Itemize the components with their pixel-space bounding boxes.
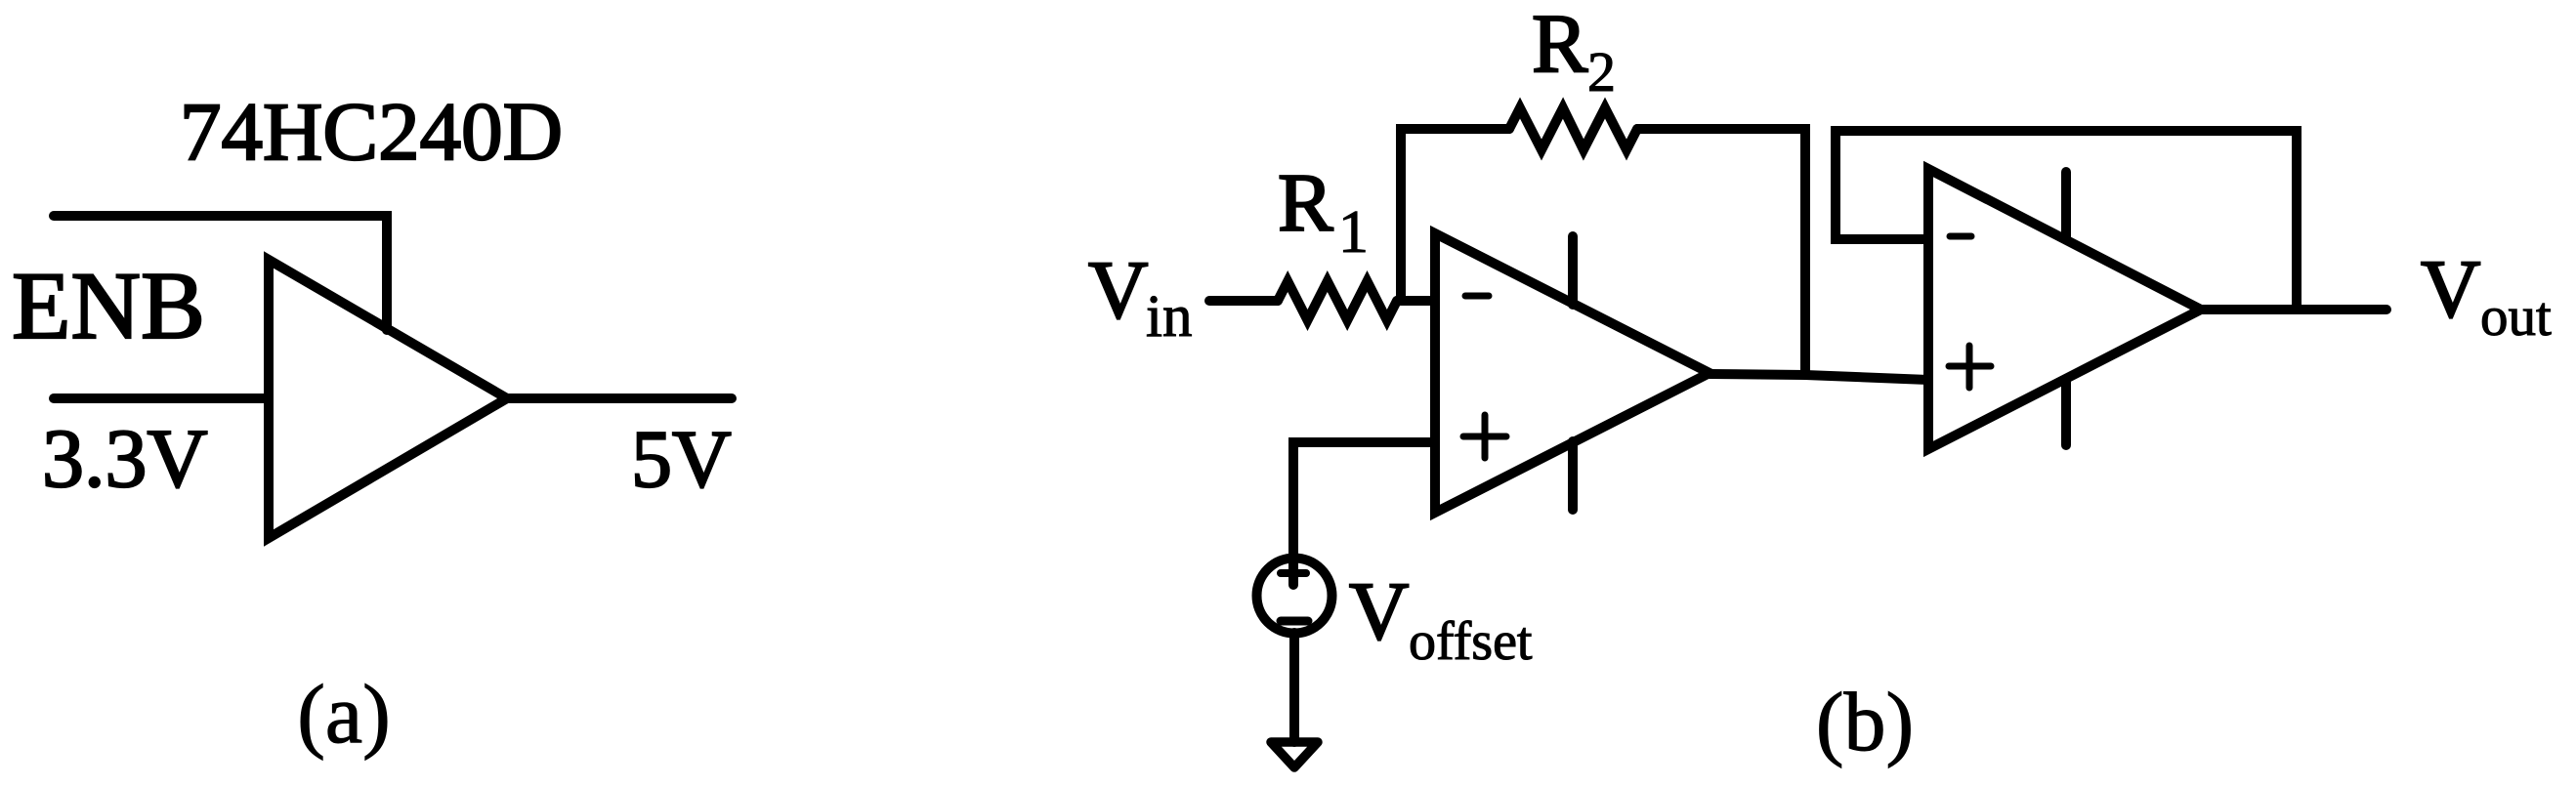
wire Vout output: [2201, 305, 2386, 314]
op-amp U3 non-inverting pin mark: [1949, 346, 1991, 388]
resistor R1: [1278, 281, 1397, 320]
resistor R2 label: [1532, 0, 1616, 104]
node Vin label: [1088, 244, 1192, 350]
wire R2 right branch: [1637, 129, 1805, 375]
svg-text:1: 1: [1338, 199, 1369, 266]
op-amp U3 triangle: [1928, 169, 2201, 449]
ground: [1271, 742, 1318, 767]
buffer U1 triangle: [269, 260, 507, 538]
wire R2 left branch: [1401, 129, 1509, 301]
wire op-amp U3 feedback loop: [1836, 131, 2297, 310]
wire Voffset to ground: [1289, 633, 1299, 742]
svg-text:(a): (a): [297, 667, 390, 761]
svg-text:V: V: [1088, 244, 1148, 336]
svg-text:V: V: [2421, 243, 2480, 335]
svg-text:(b): (b): [1816, 675, 1914, 768]
wire 5V output: [507, 393, 732, 403]
op-amp U2 triangle: [1435, 233, 1710, 513]
svg-text:R: R: [1532, 0, 1588, 90]
svg-text:out: out: [2480, 286, 2552, 348]
wire R1 to inverting input: [1397, 296, 1435, 306]
wire op-amp U2 output to op-amp U3: [1710, 374, 1928, 380]
op-amp U3 inverting pin mark: [1950, 233, 1971, 240]
wire non-inverting input to Voffset: [1293, 442, 1435, 585]
svg-text:ENB: ENB: [12, 253, 205, 359]
svg-text:2: 2: [1587, 40, 1616, 104]
wire ENB input to buffer enable: [54, 216, 387, 330]
svg-text:V: V: [1349, 565, 1409, 657]
wire Vin to R1: [1209, 296, 1278, 306]
svg-text:in: in: [1146, 284, 1192, 350]
op-amp U2 non-inverting pin mark: [1463, 415, 1506, 458]
wire 3.3V input: [54, 393, 268, 403]
node Vout label: [2421, 243, 2552, 348]
source Voffset circle: [1257, 559, 1332, 634]
svg-text:5V: 5V: [631, 414, 732, 505]
source Voffset plus mark: [1281, 569, 1306, 577]
source Voffset minus mark: [1281, 617, 1308, 626]
op-amp U2 negative supply pin: [1568, 441, 1578, 510]
resistor R1 label: [1278, 157, 1369, 266]
op-amp U2 positive supply pin: [1568, 236, 1578, 305]
svg-text:74HC240D: 74HC240D: [180, 86, 563, 178]
op-amp U3 positive supply pin: [2061, 172, 2071, 238]
resistor R2: [1509, 108, 1637, 150]
svg-text:3.3V: 3.3V: [42, 411, 208, 505]
op-amp U3 negative supply pin: [2061, 381, 2071, 445]
source Voffset label: [1349, 565, 1533, 672]
svg-text:offset: offset: [1409, 611, 1533, 672]
op-amp U2 inverting pin mark: [1465, 293, 1489, 300]
svg-text:R: R: [1278, 157, 1333, 249]
